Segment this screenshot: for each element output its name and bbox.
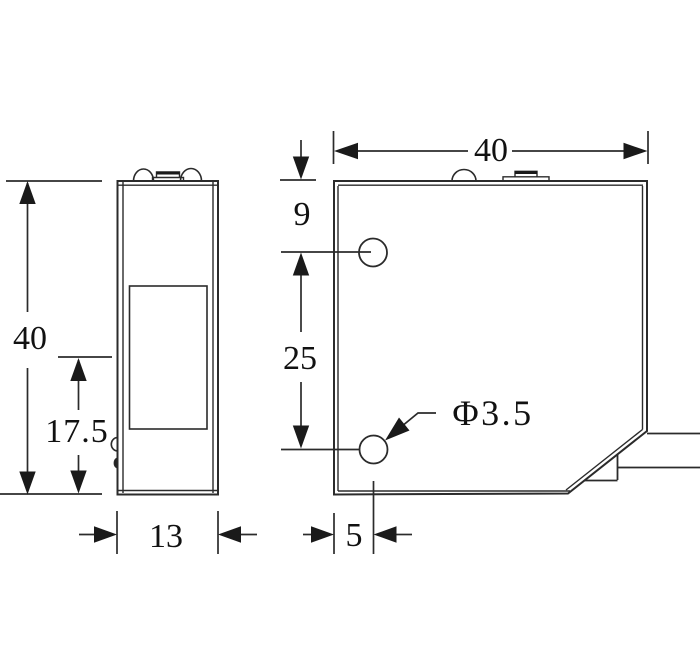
svg-text:25: 25 bbox=[283, 340, 317, 377]
svg-text:40: 40 bbox=[474, 132, 508, 169]
svg-text:9: 9 bbox=[294, 196, 311, 233]
svg-text:40: 40 bbox=[13, 320, 47, 357]
svg-text:17.5: 17.5 bbox=[45, 413, 109, 450]
svg-text:Φ3.5: Φ3.5 bbox=[452, 393, 533, 433]
svg-text:13: 13 bbox=[149, 518, 183, 555]
svg-text:5: 5 bbox=[346, 517, 363, 554]
